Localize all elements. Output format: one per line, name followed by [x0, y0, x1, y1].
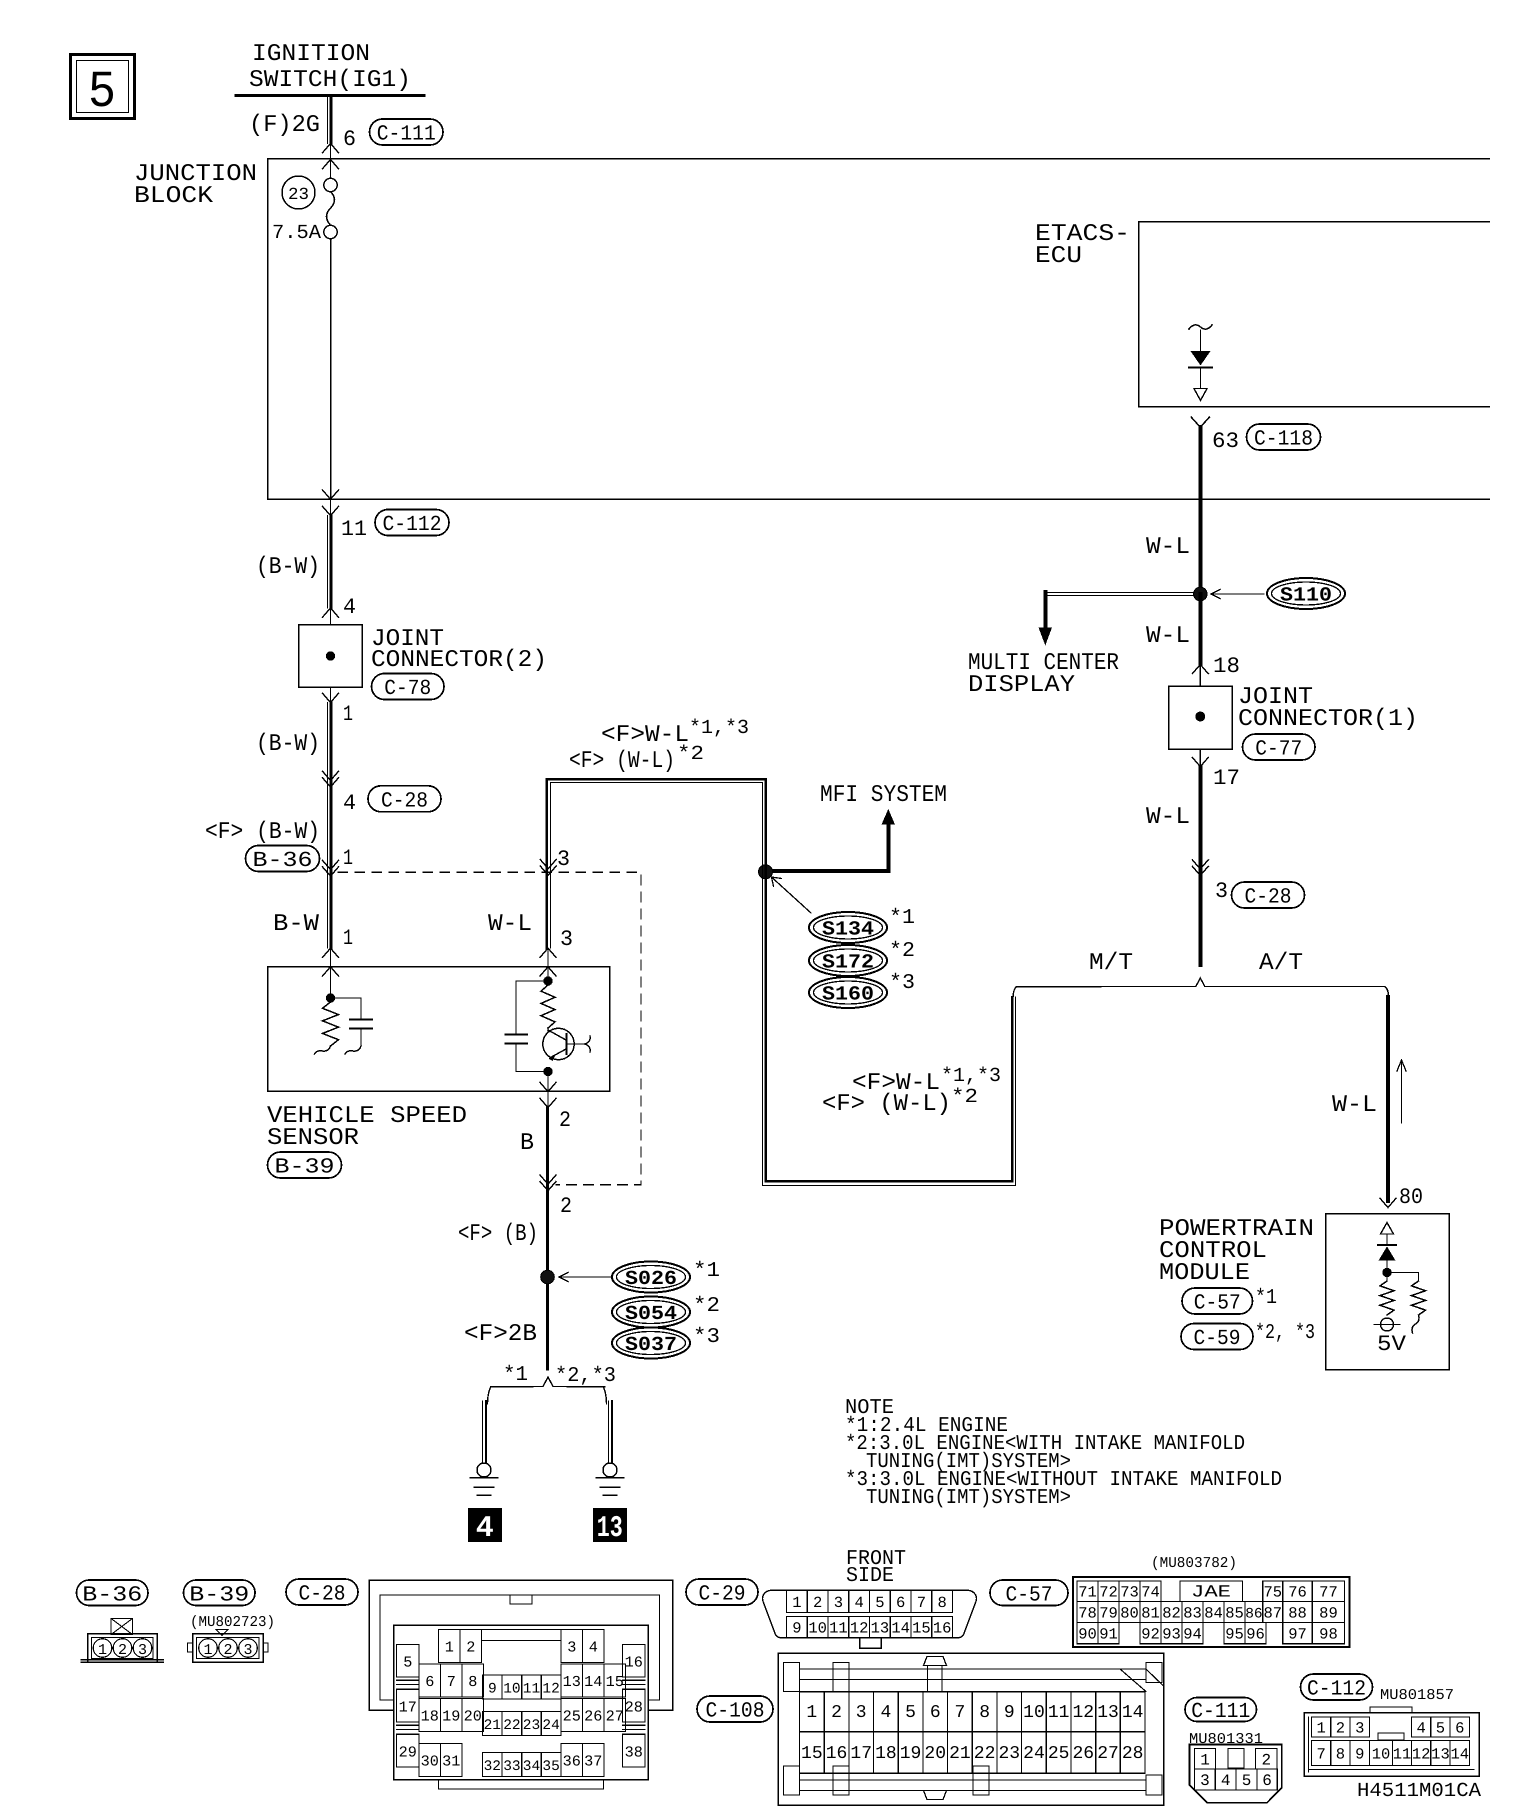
wire (B-W) to joint connector	[327, 516, 329, 608]
svg-text:ECU: ECU	[1035, 243, 1082, 270]
svg-text:W-L: W-L	[1332, 1092, 1377, 1119]
svg-text:93: 93	[1162, 1626, 1181, 1644]
sensor output transistor	[543, 1028, 574, 1059]
svg-text:26: 26	[584, 1708, 602, 1726]
junction block outline	[268, 159, 1489, 499]
svg-text:*3: *3	[693, 1326, 720, 1349]
svg-text:79: 79	[1099, 1605, 1118, 1623]
svg-text:S037: S037	[625, 1334, 677, 1357]
ground ref box 13	[594, 1509, 627, 1542]
svg-text:24: 24	[1023, 1744, 1045, 1764]
svg-text:C-77: C-77	[1255, 738, 1302, 762]
svg-text:4: 4	[1416, 1720, 1425, 1738]
svg-text:15: 15	[801, 1744, 823, 1764]
svg-text:74: 74	[1141, 1584, 1160, 1602]
svg-text:C-108: C-108	[706, 1700, 765, 1724]
svg-text:10: 10	[503, 1682, 520, 1698]
connector C-28 label left	[368, 786, 441, 812]
sensor pin 3 chevrons	[540, 948, 556, 957]
svg-text:34: 34	[523, 1759, 540, 1775]
connector C-57 drawing	[1073, 1577, 1350, 1647]
svg-text:*1,*3: *1,*3	[941, 1065, 1001, 1088]
svg-text:7.5A: 7.5A	[272, 222, 321, 245]
svg-text:B: B	[520, 1130, 534, 1157]
svg-text:17: 17	[1213, 766, 1240, 791]
svg-text:B-36: B-36	[82, 1583, 142, 1607]
svg-text:98: 98	[1319, 1626, 1338, 1644]
svg-text:90: 90	[1078, 1626, 1097, 1644]
svg-text:77: 77	[1319, 1584, 1338, 1602]
svg-text:14: 14	[1450, 1746, 1469, 1764]
svg-text:11: 11	[1048, 1703, 1070, 1723]
svg-text:S172: S172	[822, 952, 874, 975]
splice S110 pointer arrow	[1212, 593, 1264, 595]
powertrain control module box	[1326, 1214, 1450, 1370]
svg-text:80: 80	[1120, 1605, 1139, 1623]
svg-text:8: 8	[937, 1594, 946, 1612]
wire (B-W) to connector C-28	[327, 703, 329, 949]
connector C-108 drawing	[778, 1653, 1164, 1805]
connector C-111 drawing	[1190, 1745, 1282, 1803]
connector C-28 pin 4 left	[323, 771, 339, 780]
svg-text:13: 13	[871, 1620, 890, 1638]
ground ref box 4	[469, 1509, 502, 1542]
svg-text:C-59: C-59	[1194, 1327, 1241, 1351]
M/T branch double wire	[766, 997, 1013, 1181]
svg-text:25: 25	[563, 1708, 581, 1726]
svg-text:92: 92	[1141, 1626, 1160, 1644]
sensor pin 1 chevrons	[323, 948, 339, 957]
svg-text:19: 19	[900, 1744, 922, 1764]
splice S160	[809, 977, 887, 1008]
connector C-28 label right	[1232, 882, 1305, 908]
svg-text:33: 33	[503, 1759, 520, 1775]
svg-text:91: 91	[1099, 1626, 1118, 1644]
svg-text:71: 71	[1078, 1584, 1097, 1602]
splice S110	[1267, 578, 1345, 609]
svg-text:2: 2	[1336, 1720, 1345, 1738]
connector C-57 label	[1182, 1288, 1253, 1314]
svg-text:29: 29	[399, 1743, 417, 1761]
svg-text:B-W: B-W	[273, 911, 320, 938]
svg-text:C-112: C-112	[1307, 1678, 1366, 1702]
svg-text:*1,*3: *1,*3	[689, 717, 749, 740]
sensor pull-up resistor	[541, 985, 555, 1028]
splice S110 junction dot	[1194, 587, 1208, 601]
svg-text:1: 1	[1200, 1751, 1210, 1769]
svg-text:10: 10	[1372, 1746, 1391, 1764]
svg-text:<F> (B): <F> (B)	[458, 1221, 538, 1248]
wire W-L harness path	[547, 779, 766, 948]
svg-text:B-36: B-36	[253, 849, 313, 873]
svg-text:(F)2G: (F)2G	[249, 112, 320, 139]
svg-text:3: 3	[1215, 879, 1228, 904]
joint connector (1) pin 17	[1199, 749, 1201, 767]
connector C-111 label	[370, 119, 444, 145]
svg-text:3: 3	[243, 1642, 252, 1659]
svg-text:C-57: C-57	[1194, 1292, 1241, 1316]
svg-text:1: 1	[806, 1703, 817, 1723]
connector C-111 label bottom	[1185, 1698, 1257, 1722]
svg-text:12: 12	[850, 1620, 869, 1638]
svg-text:31: 31	[442, 1753, 460, 1771]
svg-text:6: 6	[1262, 1772, 1272, 1790]
PCM 5V terminal	[1381, 1318, 1394, 1331]
connector chevron inside junction block top	[323, 160, 339, 169]
svg-text:12: 12	[542, 1682, 559, 1698]
svg-text:SENSOR: SENSOR	[267, 1125, 359, 1152]
svg-text:32: 32	[484, 1759, 501, 1775]
sensor node 1 dot	[326, 994, 334, 1002]
svg-text:76: 76	[1288, 1584, 1307, 1602]
svg-text:4: 4	[343, 595, 356, 620]
svg-text:C-111: C-111	[1191, 1700, 1250, 1724]
svg-text:C-29: C-29	[699, 1583, 746, 1607]
svg-text:<F> (W-L): <F> (W-L)	[822, 1091, 951, 1118]
svg-text:*3: *3	[889, 972, 915, 995]
svg-text:11: 11	[341, 517, 367, 542]
wire W-L to joint connector 1	[1198, 594, 1202, 665]
fuse 23 7.5A	[282, 176, 315, 209]
PCM second resistor	[1387, 1272, 1419, 1274]
svg-text:4: 4	[343, 791, 356, 816]
svg-text:27: 27	[1097, 1744, 1119, 1764]
svg-text:9: 9	[1004, 1703, 1015, 1723]
svg-text:63: 63	[1212, 429, 1239, 454]
svg-text:15: 15	[912, 1620, 931, 1638]
svg-text:S134: S134	[822, 919, 874, 942]
svg-text:(MU802723): (MU802723)	[190, 1614, 275, 1631]
svg-text:MU801331: MU801331	[1189, 1731, 1263, 1748]
svg-text:5: 5	[905, 1703, 916, 1723]
svg-text:BLOCK: BLOCK	[134, 183, 214, 210]
svg-text:<F>W-L: <F>W-L	[601, 722, 689, 749]
svg-text:85: 85	[1225, 1605, 1244, 1623]
svg-text:25: 25	[1048, 1744, 1070, 1764]
ETACS diode	[1191, 351, 1211, 366]
connector C-28 pin 3 left chevrons	[540, 860, 556, 869]
svg-text:6: 6	[343, 127, 356, 152]
svg-text:B-39: B-39	[275, 1156, 335, 1180]
svg-text:2: 2	[560, 1194, 572, 1219]
svg-text:C-111: C-111	[377, 123, 436, 147]
wire (F)2G from ignition switch	[327, 97, 329, 144]
svg-text:S054: S054	[625, 1303, 677, 1326]
svg-text:4: 4	[854, 1594, 863, 1612]
splice pointer arrow	[560, 1276, 612, 1278]
joint connector (2) C-78 box	[299, 625, 363, 688]
svg-text:9: 9	[1355, 1746, 1364, 1764]
splice S037	[612, 1328, 690, 1359]
svg-text:26: 26	[1073, 1744, 1095, 1764]
svg-text:11: 11	[523, 1682, 540, 1698]
svg-text:7: 7	[447, 1673, 456, 1691]
svg-text:37: 37	[584, 1753, 602, 1771]
svg-text:19: 19	[442, 1708, 460, 1726]
vehicle speed sensor box	[268, 967, 610, 1092]
svg-text:3: 3	[856, 1703, 867, 1723]
svg-text:96: 96	[1246, 1626, 1265, 1644]
wire fuse to junction block bottom	[330, 239, 332, 499]
svg-text:6: 6	[425, 1673, 434, 1691]
connector C-111 pin 6	[323, 144, 339, 153]
svg-text:22: 22	[974, 1744, 996, 1764]
svg-text:38: 38	[625, 1743, 643, 1761]
svg-text:(B-W): (B-W)	[256, 554, 320, 581]
svg-text:CONNECTOR(2): CONNECTOR(2)	[371, 647, 547, 674]
connector B-39 label bottom	[184, 1580, 256, 1606]
svg-text:18: 18	[875, 1744, 897, 1764]
svg-text:24: 24	[542, 1718, 559, 1734]
splice S134	[809, 912, 887, 943]
sensor node 3 dot	[544, 977, 552, 985]
svg-text:8: 8	[979, 1703, 990, 1723]
svg-text:14: 14	[891, 1620, 910, 1638]
svg-text:4: 4	[589, 1639, 598, 1657]
svg-text:5: 5	[1436, 1720, 1445, 1738]
svg-text:72: 72	[1099, 1584, 1118, 1602]
svg-text:M/T: M/T	[1089, 950, 1133, 977]
bus ignition switch IG1	[236, 94, 424, 97]
splice S172	[809, 945, 887, 976]
svg-text:*1: *1	[1255, 1287, 1277, 1310]
svg-text:<F> (W-L): <F> (W-L)	[569, 748, 675, 775]
svg-text:10: 10	[808, 1620, 827, 1638]
PCM input open triangle	[1381, 1223, 1394, 1235]
svg-text:3: 3	[557, 847, 570, 872]
svg-text:87: 87	[1263, 1605, 1282, 1623]
svg-text:MU801857: MU801857	[1380, 1687, 1454, 1704]
connector C-112 drawing	[1304, 1713, 1479, 1777]
transmission split brace	[1013, 978, 1388, 997]
svg-text:11: 11	[1393, 1746, 1412, 1764]
svg-text:3: 3	[1355, 1720, 1364, 1738]
svg-text:5: 5	[1242, 1772, 1252, 1790]
svg-text:*1: *1	[693, 1260, 720, 1283]
svg-text:*2, *3: *2, *3	[1255, 1322, 1315, 1345]
ground wire right *2 *3	[608, 1401, 610, 1463]
svg-text:22: 22	[503, 1718, 520, 1734]
svg-text:W-L: W-L	[1146, 534, 1190, 561]
splice pointer arrow to MFI junction	[772, 878, 811, 914]
ETACS internal wire squiggle	[1189, 325, 1212, 329]
svg-text:3: 3	[1200, 1772, 1210, 1790]
ETACS output open arrow	[1194, 389, 1207, 401]
svg-text:7: 7	[917, 1594, 926, 1612]
svg-text:*2: *2	[951, 1086, 978, 1109]
connector B-39 drawing	[216, 1630, 228, 1636]
sensor node 2 dot	[544, 1067, 552, 1075]
connector C-108 label bottom	[697, 1696, 773, 1722]
svg-text:9: 9	[792, 1620, 801, 1638]
svg-text:17: 17	[399, 1698, 417, 1716]
svg-text:8: 8	[1336, 1746, 1345, 1764]
svg-text:JAE: JAE	[1191, 1584, 1231, 1603]
connector C-59 label	[1181, 1324, 1253, 1350]
page number box 5	[71, 55, 135, 119]
svg-text:1: 1	[98, 1642, 107, 1659]
svg-text:27: 27	[606, 1708, 624, 1726]
svg-text:23: 23	[998, 1744, 1020, 1764]
svg-text:2: 2	[831, 1703, 842, 1723]
svg-text:35: 35	[542, 1759, 559, 1775]
connector C-118 pin 63	[1191, 417, 1209, 427]
MFI splice junction dot	[759, 865, 773, 879]
svg-text:W-L: W-L	[488, 911, 532, 938]
svg-text:C-28: C-28	[381, 789, 428, 813]
wire B below sensor	[546, 1108, 549, 1369]
svg-text:15: 15	[606, 1673, 624, 1691]
joint connector (1) C-77 box	[1169, 686, 1233, 749]
svg-text:8: 8	[468, 1673, 477, 1691]
svg-text:81: 81	[1141, 1605, 1160, 1623]
svg-text:2: 2	[223, 1642, 232, 1659]
svg-text:28: 28	[1122, 1744, 1144, 1764]
svg-text:80: 80	[1399, 1185, 1423, 1210]
svg-text:SWITCH(IG1): SWITCH(IG1)	[249, 67, 411, 94]
sensor pin 2 chevrons	[547, 1091, 549, 1108]
connector C-29 label bottom	[686, 1579, 758, 1605]
svg-text:C-28: C-28	[1245, 886, 1292, 910]
svg-text:1: 1	[445, 1639, 454, 1657]
svg-text:3: 3	[560, 927, 573, 952]
svg-text:84: 84	[1204, 1605, 1223, 1623]
svg-text:82: 82	[1162, 1605, 1181, 1623]
svg-text:C-118: C-118	[1254, 428, 1313, 452]
svg-text:A/T: A/T	[1259, 950, 1303, 977]
connector C-28 pin 3 right	[1192, 860, 1208, 869]
svg-text:28: 28	[625, 1698, 643, 1716]
connector C-28 drawing	[369, 1580, 673, 1710]
ground split brace	[488, 1377, 607, 1404]
svg-text:7: 7	[1316, 1746, 1325, 1764]
svg-text:14: 14	[1122, 1703, 1144, 1723]
svg-text:16: 16	[933, 1620, 952, 1638]
svg-text:6: 6	[1455, 1720, 1464, 1738]
svg-text:2: 2	[466, 1639, 475, 1657]
svg-text:(B-W): (B-W)	[256, 731, 320, 758]
svg-text:1: 1	[343, 926, 353, 951]
svg-text:*1: *1	[889, 907, 915, 930]
svg-text:2: 2	[118, 1642, 127, 1659]
splice S054	[612, 1297, 690, 1328]
svg-text:*2: *2	[693, 1295, 720, 1318]
svg-text:1: 1	[1316, 1720, 1325, 1738]
svg-text:6: 6	[930, 1703, 941, 1723]
svg-text:2: 2	[559, 1108, 571, 1133]
svg-text:1: 1	[203, 1642, 212, 1659]
svg-text:IGNITION: IGNITION	[252, 41, 370, 68]
svg-text:36: 36	[563, 1753, 581, 1771]
svg-text:21: 21	[949, 1744, 971, 1764]
svg-text:2: 2	[1261, 1751, 1271, 1769]
svg-text:12: 12	[1412, 1746, 1431, 1764]
svg-text:23: 23	[288, 186, 309, 205]
svg-text:94: 94	[1183, 1626, 1202, 1644]
svg-text:5V: 5V	[1377, 1332, 1407, 1357]
connector C-28 label bottom	[286, 1579, 358, 1605]
svg-text:5: 5	[88, 63, 116, 122]
wire W-L to connector C-28 right	[1198, 767, 1202, 965]
svg-text:3: 3	[834, 1594, 843, 1612]
svg-text:18: 18	[421, 1708, 439, 1726]
svg-text:88: 88	[1288, 1605, 1307, 1623]
svg-text:97: 97	[1288, 1626, 1307, 1644]
svg-text:11: 11	[829, 1620, 848, 1638]
svg-text:*2: *2	[889, 940, 915, 963]
svg-text:*2: *2	[677, 743, 704, 766]
svg-text:83: 83	[1183, 1605, 1202, 1623]
svg-text:(MU803782): (MU803782)	[1151, 1555, 1237, 1572]
svg-text:4: 4	[880, 1703, 891, 1723]
dashed harness boundary	[338, 872, 641, 1184]
svg-text:12: 12	[1073, 1703, 1095, 1723]
svg-text:S026: S026	[625, 1268, 677, 1291]
sensor pickup coil resistor	[323, 1002, 339, 1046]
PCM pin 80	[1380, 1198, 1396, 1207]
connector B-39 label	[268, 1152, 342, 1178]
wire W-L from ETACS	[1198, 427, 1202, 590]
svg-text:3: 3	[567, 1639, 576, 1657]
svg-text:20: 20	[924, 1744, 946, 1764]
svg-text:30: 30	[421, 1753, 439, 1771]
svg-text:3: 3	[138, 1642, 147, 1659]
svg-text:10: 10	[1023, 1703, 1045, 1723]
svg-text:21: 21	[484, 1718, 501, 1734]
svg-text:16: 16	[625, 1653, 643, 1671]
svg-text:1: 1	[792, 1594, 801, 1612]
svg-text:S160: S160	[822, 984, 874, 1007]
svg-text:13: 13	[563, 1673, 581, 1691]
svg-text:W-L: W-L	[1146, 804, 1190, 831]
ground symbol right	[597, 1477, 624, 1479]
svg-text:DISPLAY: DISPLAY	[968, 672, 1075, 699]
svg-text:86: 86	[1245, 1607, 1262, 1623]
connector C-112 label bottom	[1301, 1674, 1373, 1700]
splice junction dot	[541, 1270, 555, 1284]
connector C-118 label	[1247, 424, 1321, 450]
svg-text:S110: S110	[1280, 585, 1332, 608]
svg-text:*1: *1	[503, 1364, 528, 1387]
multi center display arrowhead	[1039, 628, 1053, 646]
PCM pull-up resistor	[1386, 1276, 1388, 1281]
svg-text:20: 20	[464, 1708, 482, 1726]
svg-text:5: 5	[875, 1594, 884, 1612]
svg-text:<F>2B: <F>2B	[464, 1321, 537, 1348]
connector C-112 pin 11	[330, 499, 332, 516]
connector B-36 pin 1	[246, 846, 320, 872]
PCM internal node dot	[1383, 1268, 1391, 1276]
connector B-36 drawing	[111, 1619, 133, 1635]
svg-text:W-L: W-L	[1146, 623, 1190, 650]
svg-text:13: 13	[1431, 1746, 1450, 1764]
sensor capacitor left	[331, 997, 362, 999]
svg-text:4: 4	[1221, 1772, 1231, 1790]
ground symbol left	[471, 1477, 498, 1479]
svg-text:78: 78	[1078, 1605, 1097, 1623]
svg-text:13: 13	[597, 1512, 623, 1546]
joint connector (1) pin 18	[1192, 665, 1208, 674]
splice S026	[612, 1262, 690, 1293]
connector pin 2 in-line chevrons	[540, 1175, 556, 1184]
MFI system wire and arrowhead	[882, 809, 896, 825]
joint connector (2) pin 1	[330, 687, 332, 703]
svg-text:89: 89	[1319, 1605, 1338, 1623]
svg-text:MFI SYSTEM: MFI SYSTEM	[820, 782, 947, 809]
ground terminal circle right	[603, 1463, 617, 1477]
svg-text:9: 9	[488, 1682, 497, 1698]
svg-text:23: 23	[523, 1718, 540, 1734]
